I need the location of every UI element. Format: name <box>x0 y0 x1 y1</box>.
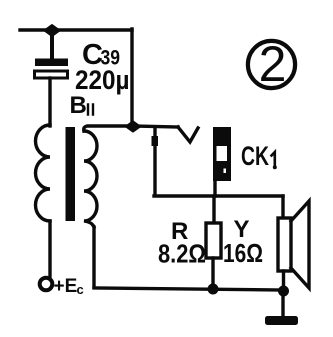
speaker Y driver <box>278 218 291 271</box>
wire CK1 to mid rail <box>213 181 216 196</box>
ground <box>265 316 298 325</box>
svg-text:8.2Ω: 8.2Ω <box>158 239 206 269</box>
svg-text:16Ω: 16Ω <box>223 238 263 268</box>
wire mid rail <box>154 194 283 197</box>
wire top horizontal <box>20 28 132 31</box>
label CK1 <box>241 141 277 171</box>
figure number 2 circle <box>248 41 295 88</box>
terminal +Ec <box>40 278 53 291</box>
svg-text:+E: +E <box>54 276 78 297</box>
transformer B11 secondary winding <box>84 131 97 227</box>
node junction bottom right <box>278 286 289 297</box>
svg-text:2: 2 <box>259 36 287 92</box>
wire mid rail to resistor <box>212 196 215 224</box>
svg-text:CK: CK <box>241 141 269 171</box>
wire secondary top to junction <box>84 126 133 131</box>
wire to ground <box>281 291 284 317</box>
node junction bottom left <box>208 284 219 295</box>
wire right vertical from top corner <box>130 29 133 126</box>
node junction mid <box>126 122 140 132</box>
wire mid rail to speaker <box>281 196 284 218</box>
svg-text:c: c <box>77 282 84 297</box>
speaker Y cone <box>291 201 309 288</box>
transformer B11 core <box>66 127 76 221</box>
svg-text:B: B <box>70 92 87 119</box>
wire primary bottom to terminal <box>48 221 51 276</box>
transformer B11 primary winding <box>36 125 51 221</box>
wire resistor to bottom rail <box>211 258 214 289</box>
jack CK1 break contact <box>178 127 198 142</box>
label +Ec <box>54 276 84 297</box>
node junction top <box>44 25 59 36</box>
wire junction to jack contact <box>132 126 178 127</box>
wire speaker to bottom rail <box>282 271 285 291</box>
wire capacitor to transformer <box>48 78 51 126</box>
svg-text:220µ: 220µ <box>75 65 130 95</box>
jack socket CK1 body <box>213 127 231 181</box>
resistor R <box>206 223 221 258</box>
wire junction to capacitor <box>50 30 54 59</box>
jack plug tip <box>152 136 159 146</box>
wire bottom rail <box>94 288 283 290</box>
jack plug stem wire <box>153 128 156 195</box>
capacitor C39 <box>35 59 69 79</box>
wire secondary bottom to ground rail <box>92 227 95 287</box>
label C39 <box>82 39 120 71</box>
label B11 <box>70 92 94 119</box>
